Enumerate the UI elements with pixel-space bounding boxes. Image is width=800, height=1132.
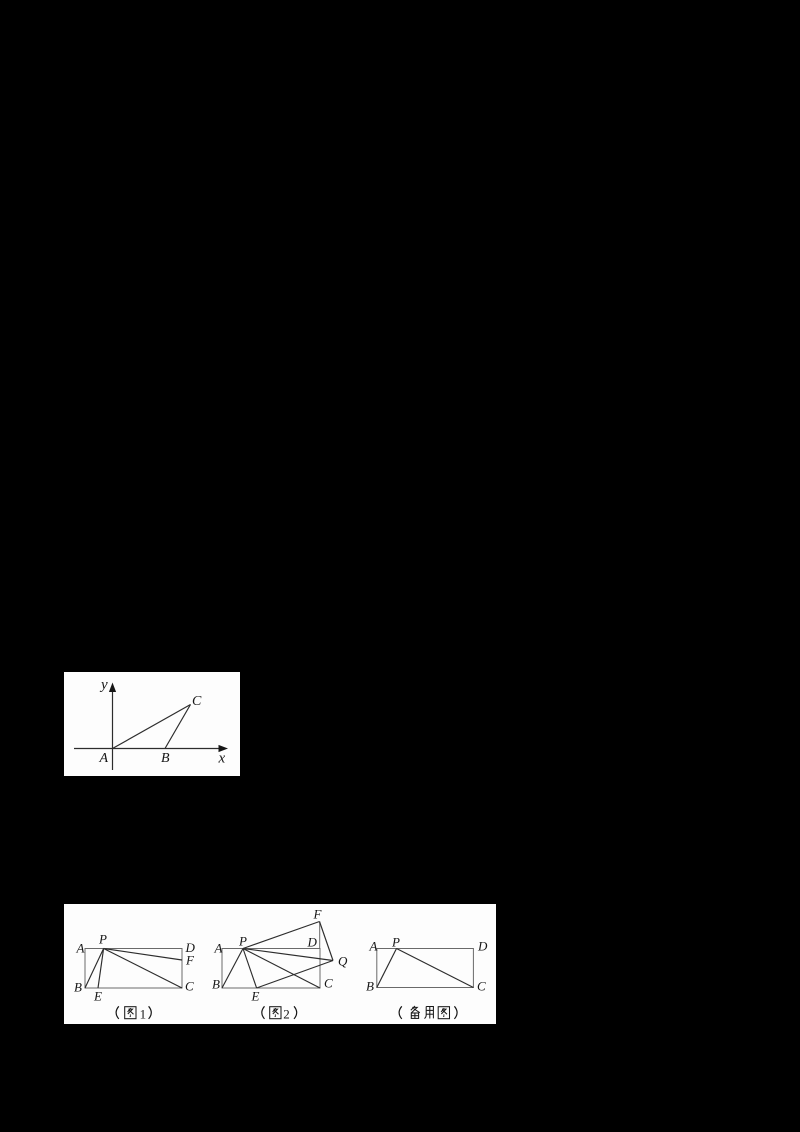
svg-text:E: E [251,989,260,1004]
svg-text:B: B [366,979,374,994]
svg-text:E: E [93,989,102,1004]
svg-text:D: D [307,935,318,950]
svg-text:P: P [238,934,247,949]
svg-text:C: C [192,694,202,709]
svg-text:B: B [212,977,220,992]
svg-text:F: F [313,907,323,922]
svg-text:1: 1 [140,1007,147,1022]
svg-text:A: A [99,751,109,766]
svg-text:C: C [185,979,194,994]
svg-text:A: A [214,941,223,956]
svg-text:B: B [161,751,170,766]
svg-text:P: P [391,935,400,950]
svg-text:2: 2 [283,1007,290,1022]
svg-text:x: x [218,751,226,767]
svg-text:A: A [369,939,378,954]
svg-text:F: F [185,953,195,968]
svg-text:Q: Q [338,954,348,969]
svg-text:C: C [477,979,486,994]
svg-text:A: A [76,941,85,956]
svg-text:C: C [324,976,333,991]
svg-text:D: D [477,939,488,954]
svg-text:B: B [74,980,82,995]
svg-text:P: P [98,932,107,947]
svg-text:y: y [99,677,108,693]
